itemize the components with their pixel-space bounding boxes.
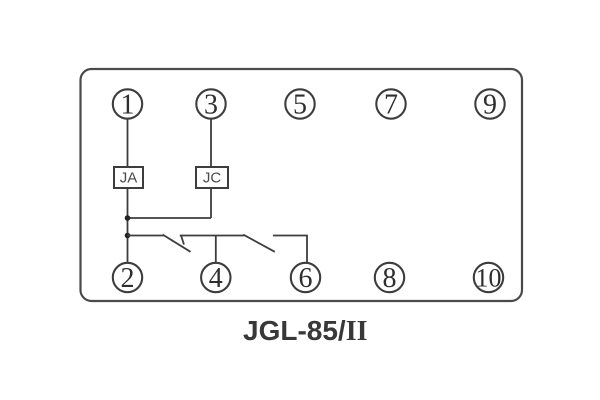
wire coil JC down — [210, 188, 212, 218]
wire node B to contact K1 — [128, 235, 164, 237]
wire drop to terminal 4 — [215, 236, 217, 264]
wire contact K1 to contact K2 — [180, 235, 244, 237]
wire coil JA to terminal 2 — [127, 188, 129, 263]
svg-text:5: 5 — [293, 90, 307, 121]
svg-text:4: 4 — [209, 263, 223, 294]
terminal 9 — [475, 89, 504, 118]
junction node A — [125, 215, 131, 221]
svg-text:9: 9 — [483, 90, 497, 121]
contact K1 fixed tick — [181, 236, 184, 245]
wire contact K2 to terminal 6 — [273, 236, 307, 264]
svg-text:1: 1 — [121, 90, 135, 121]
svg-text:JC: JC — [203, 170, 222, 187]
terminal 7 — [376, 89, 405, 118]
svg-text:10: 10 — [476, 264, 502, 293]
coil JC — [196, 167, 228, 188]
terminal 8 — [375, 263, 404, 292]
wire terminal1 to coil JA — [127, 119, 129, 168]
svg-text:3: 3 — [204, 90, 218, 121]
svg-text:2: 2 — [121, 263, 135, 294]
terminal 1 — [113, 89, 142, 118]
terminal 5 — [285, 89, 314, 118]
contact K2 blade — [243, 235, 275, 252]
wire terminal3 to coil JC — [210, 119, 212, 168]
terminal 4 — [201, 263, 230, 292]
coil JA — [114, 167, 143, 188]
svg-text:6: 6 — [299, 263, 313, 294]
terminal 3 — [196, 89, 225, 118]
terminal 10 — [474, 263, 503, 292]
contact K1 blade — [163, 235, 191, 252]
wire JC bottom to node A — [128, 217, 212, 219]
terminal 6 — [291, 263, 320, 292]
svg-text:8: 8 — [383, 263, 397, 294]
svg-text:JGL-85/II: JGL-85/II — [243, 315, 368, 347]
terminal 2 — [113, 263, 142, 292]
junction node B — [125, 233, 131, 239]
svg-text:7: 7 — [384, 90, 398, 121]
relay case outline — [81, 69, 523, 301]
svg-text:JA: JA — [120, 170, 138, 187]
